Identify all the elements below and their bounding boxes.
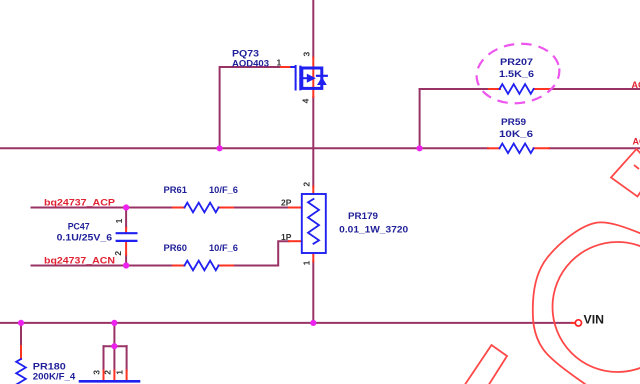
transistor Q PQ73 body diode triangle	[317, 77, 327, 85]
pin lead PR180	[20, 346, 22, 359]
svg-text:PR179: PR179	[348, 211, 378, 221]
svg-text:2P: 2P	[281, 197, 292, 207]
pin lead PR60 left	[173, 265, 185, 267]
wire connector pin1 vertical	[126, 346, 128, 370]
annotation slanted pen stroke bottom	[464, 345, 507, 384]
annotation dashed ellipse around PR207	[473, 39, 563, 108]
svg-text:1P: 1P	[281, 232, 292, 242]
wire bus y148 left segment	[0, 147, 488, 149]
svg-text:1.5K_6: 1.5K_6	[499, 69, 534, 79]
wire ACP left	[32, 207, 174, 209]
junction dot PC47 on ACN	[123, 262, 129, 268]
transistor Q PQ73 gate bar	[291, 66, 295, 90]
junction dot PC47 on ACP	[123, 204, 129, 210]
svg-text:1: 1	[115, 370, 125, 375]
wire top y89 right segment	[550, 88, 640, 90]
resistor PR179 box	[302, 194, 326, 253]
wire top y89 left segment	[420, 88, 489, 90]
transistor Q PQ73 arrow	[307, 74, 316, 83]
resistor PR61	[185, 203, 219, 213]
svg-text:10/F_6: 10/F_6	[209, 243, 238, 253]
annotation outer circle around VIN	[533, 222, 640, 384]
resistor PR207	[500, 84, 534, 94]
capacitor PC47 plates	[117, 233, 137, 241]
svg-text:bq24737_ACP: bq24737_ACP	[44, 197, 115, 207]
pin lead PR59 right	[534, 147, 550, 149]
wire connector pin2 vertical	[113, 346, 115, 370]
wire connector branch x114	[113, 323, 115, 346]
svg-text:PR180: PR180	[33, 362, 66, 372]
pin lead PR61 left	[173, 207, 185, 209]
resistor PR59	[500, 144, 534, 154]
pin lead PR207 left	[489, 88, 500, 90]
wire bottom bus	[0, 322, 572, 324]
transistor Q PQ73 body box	[302, 68, 322, 88]
svg-text:PR207: PR207	[500, 57, 533, 67]
svg-text:10/F_6: 10/F_6	[209, 185, 238, 195]
pin lead PR61 right	[219, 207, 234, 209]
pin lead PR59 left	[488, 147, 500, 149]
svg-text:AC: AC	[633, 137, 640, 147]
wire ACN left	[32, 265, 174, 267]
svg-text:PQ73: PQ73	[232, 49, 259, 59]
connector body edge (blue)	[80, 380, 139, 383]
svg-text:0.1U/25V_6: 0.1U/25V_6	[57, 232, 113, 242]
junction dot connector split	[111, 343, 117, 349]
pin lead VIN port	[572, 322, 576, 324]
junction dot connector on bottom bus	[111, 320, 117, 326]
svg-text:2: 2	[302, 182, 312, 187]
svg-text:AOD403: AOD403	[232, 58, 269, 68]
pin lead PC47 top	[125, 228, 127, 232]
pin lead connector 3	[103, 371, 105, 381]
wire drain top x313	[312, 0, 314, 58]
svg-text:3: 3	[92, 370, 102, 375]
wire connector pin3 vertical	[103, 346, 105, 370]
resistor PR180	[16, 359, 26, 384]
junction dot PR180 on bottom bus	[18, 320, 24, 326]
pin lead connector 2	[113, 371, 115, 381]
svg-text:bq24737_ACN: bq24737_ACN	[44, 256, 115, 266]
svg-text:PR59: PR59	[501, 117, 526, 127]
pin lead PQ73 gate	[281, 66, 292, 68]
pin lead connector 1	[126, 371, 128, 381]
annotation inner circle around VIN	[553, 242, 640, 372]
transistor Q PQ73 body diode cathode bar	[317, 75, 327, 77]
pin lead PR179 pin1	[312, 252, 314, 262]
svg-text:1: 1	[302, 260, 312, 265]
annotation red mark inside diamond	[634, 165, 639, 169]
wire PQ73 gate branch	[220, 67, 281, 148]
pin lead PR179 2P	[289, 207, 302, 209]
svg-text:VIN: VIN	[584, 312, 605, 326]
svg-text:PR61: PR61	[164, 185, 188, 195]
junction dot x419 on bus	[417, 145, 423, 151]
pin lead PQ73 drain-source	[312, 58, 314, 98]
pin lead PR207 right	[534, 88, 550, 90]
wire connector bar y346	[104, 345, 127, 347]
annotation red diamond	[611, 149, 640, 197]
svg-text:1: 1	[114, 218, 124, 223]
pin lead PR179 pin2	[312, 187, 314, 196]
wire PR180 branch	[20, 323, 22, 346]
svg-text:3: 3	[301, 52, 311, 57]
wire ACP right	[233, 207, 289, 209]
svg-text:4: 4	[300, 98, 310, 103]
svg-text:200K/F_4: 200K/F_4	[33, 371, 76, 381]
svg-text:AC: AC	[632, 80, 640, 90]
pin lead PC47 bottom	[125, 242, 127, 255]
junction dot gate branch on bus	[217, 145, 223, 151]
wire source to PR179	[312, 97, 314, 187]
pin lead PR60 right	[219, 265, 234, 267]
svg-text:10K_6: 10K_6	[499, 129, 533, 139]
junction dot PR179 on bottom bus	[310, 320, 316, 326]
svg-text:0.01_1W_3720: 0.01_1W_3720	[339, 225, 408, 235]
wire bus y148 right segment	[549, 147, 640, 149]
svg-text:PC47: PC47	[68, 222, 90, 232]
pin lead PR179 1P	[289, 240, 302, 242]
port VIN circle	[575, 320, 581, 326]
wire PR179 to bottom bus	[312, 262, 314, 323]
resistor PR60	[185, 261, 219, 271]
svg-text:1: 1	[277, 58, 282, 68]
wire ACN right to corner	[233, 241, 289, 265]
transistor Q PQ73 channel bar	[299, 67, 301, 89]
transistor Q PQ73 source stub	[302, 77, 307, 79]
wire vertical x419	[419, 89, 421, 148]
svg-text:2: 2	[103, 370, 113, 375]
svg-text:PR60: PR60	[164, 243, 188, 253]
wire PC47 vertical	[125, 208, 127, 266]
resistor PR179 zigzag	[308, 199, 319, 244]
